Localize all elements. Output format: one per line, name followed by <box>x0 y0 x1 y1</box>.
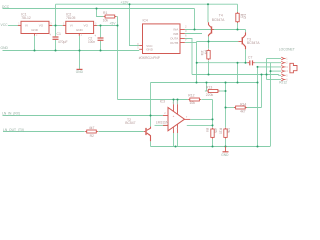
svg-text:INA: INA <box>173 27 178 31</box>
svg-text:220k: 220k <box>206 93 214 97</box>
svg-text:VCC: VCC <box>1 23 9 27</box>
svg-text:INB: INB <box>173 32 178 36</box>
svg-text:VI: VI <box>70 23 73 27</box>
svg-text:R14: R14 <box>240 103 246 107</box>
svg-text:OUTA: OUTA <box>170 37 178 41</box>
svg-text:10k: 10k <box>103 18 109 22</box>
svg-text:78L05: 78L05 <box>66 16 76 20</box>
svg-text:GND: GND <box>31 28 39 32</box>
svg-text:GND: GND <box>1 46 9 50</box>
svg-text:IC4: IC4 <box>143 19 148 23</box>
svg-text:10k: 10k <box>200 50 204 56</box>
svg-text:R13: R13 <box>206 86 212 90</box>
svg-text:47k: 47k <box>213 128 217 134</box>
svg-text:#OKRGJ=PNP: #OKRGJ=PNP <box>139 56 160 60</box>
svg-text:+: + <box>49 33 51 37</box>
svg-text:BC547A: BC547A <box>212 18 225 22</box>
svg-text:OUTB: OUTB <box>170 41 178 45</box>
svg-text:R1: R1 <box>103 11 107 15</box>
svg-text:C1: C1 <box>57 32 61 36</box>
svg-text:BC547A: BC547A <box>247 41 260 45</box>
svg-text:VO: VO <box>39 23 44 27</box>
svg-text:LN_IN_(RX): LN_IN_(RX) <box>2 112 20 116</box>
svg-text:R2: R2 <box>90 134 94 138</box>
svg-text:VI: VI <box>25 23 28 27</box>
svg-text:C7: C7 <box>248 55 252 59</box>
svg-text:470µF: 470µF <box>58 40 68 44</box>
svg-text:GND: GND <box>76 28 84 32</box>
svg-text:78L12: 78L12 <box>21 16 31 20</box>
svg-text:+: + <box>173 114 175 118</box>
svg-text:LN_OUT_(TX): LN_OUT_(TX) <box>3 128 24 132</box>
svg-text:DCC: DCC <box>2 5 10 9</box>
svg-text:R12: R12 <box>188 93 194 97</box>
svg-text:R10: R10 <box>218 128 222 134</box>
svg-text:VO: VO <box>84 23 89 27</box>
svg-text:T4: T4 <box>219 13 223 17</box>
svg-text:GND: GND <box>76 70 84 74</box>
svg-text:LOCONET: LOCONET <box>279 47 295 51</box>
svg-text:−: − <box>173 125 175 129</box>
svg-text:+: + <box>94 34 96 38</box>
svg-text:GND: GND <box>221 153 229 157</box>
svg-text:+12V: +12V <box>121 0 130 4</box>
svg-text:+5V: +5V <box>110 21 117 25</box>
svg-text:4k7: 4k7 <box>89 126 95 130</box>
svg-text:1k5: 1k5 <box>243 14 247 19</box>
svg-text:LM311N: LM311N <box>156 120 169 124</box>
svg-text:10k: 10k <box>227 128 231 134</box>
svg-text:100n: 100n <box>88 40 95 44</box>
svg-text:GND: GND <box>146 48 154 52</box>
svg-text:10k: 10k <box>190 101 196 105</box>
svg-text:BC547: BC547 <box>125 121 135 125</box>
svg-text:R9: R9 <box>205 128 209 132</box>
svg-text:4k7: 4k7 <box>240 110 246 114</box>
svg-text:IC3: IC3 <box>160 100 165 104</box>
